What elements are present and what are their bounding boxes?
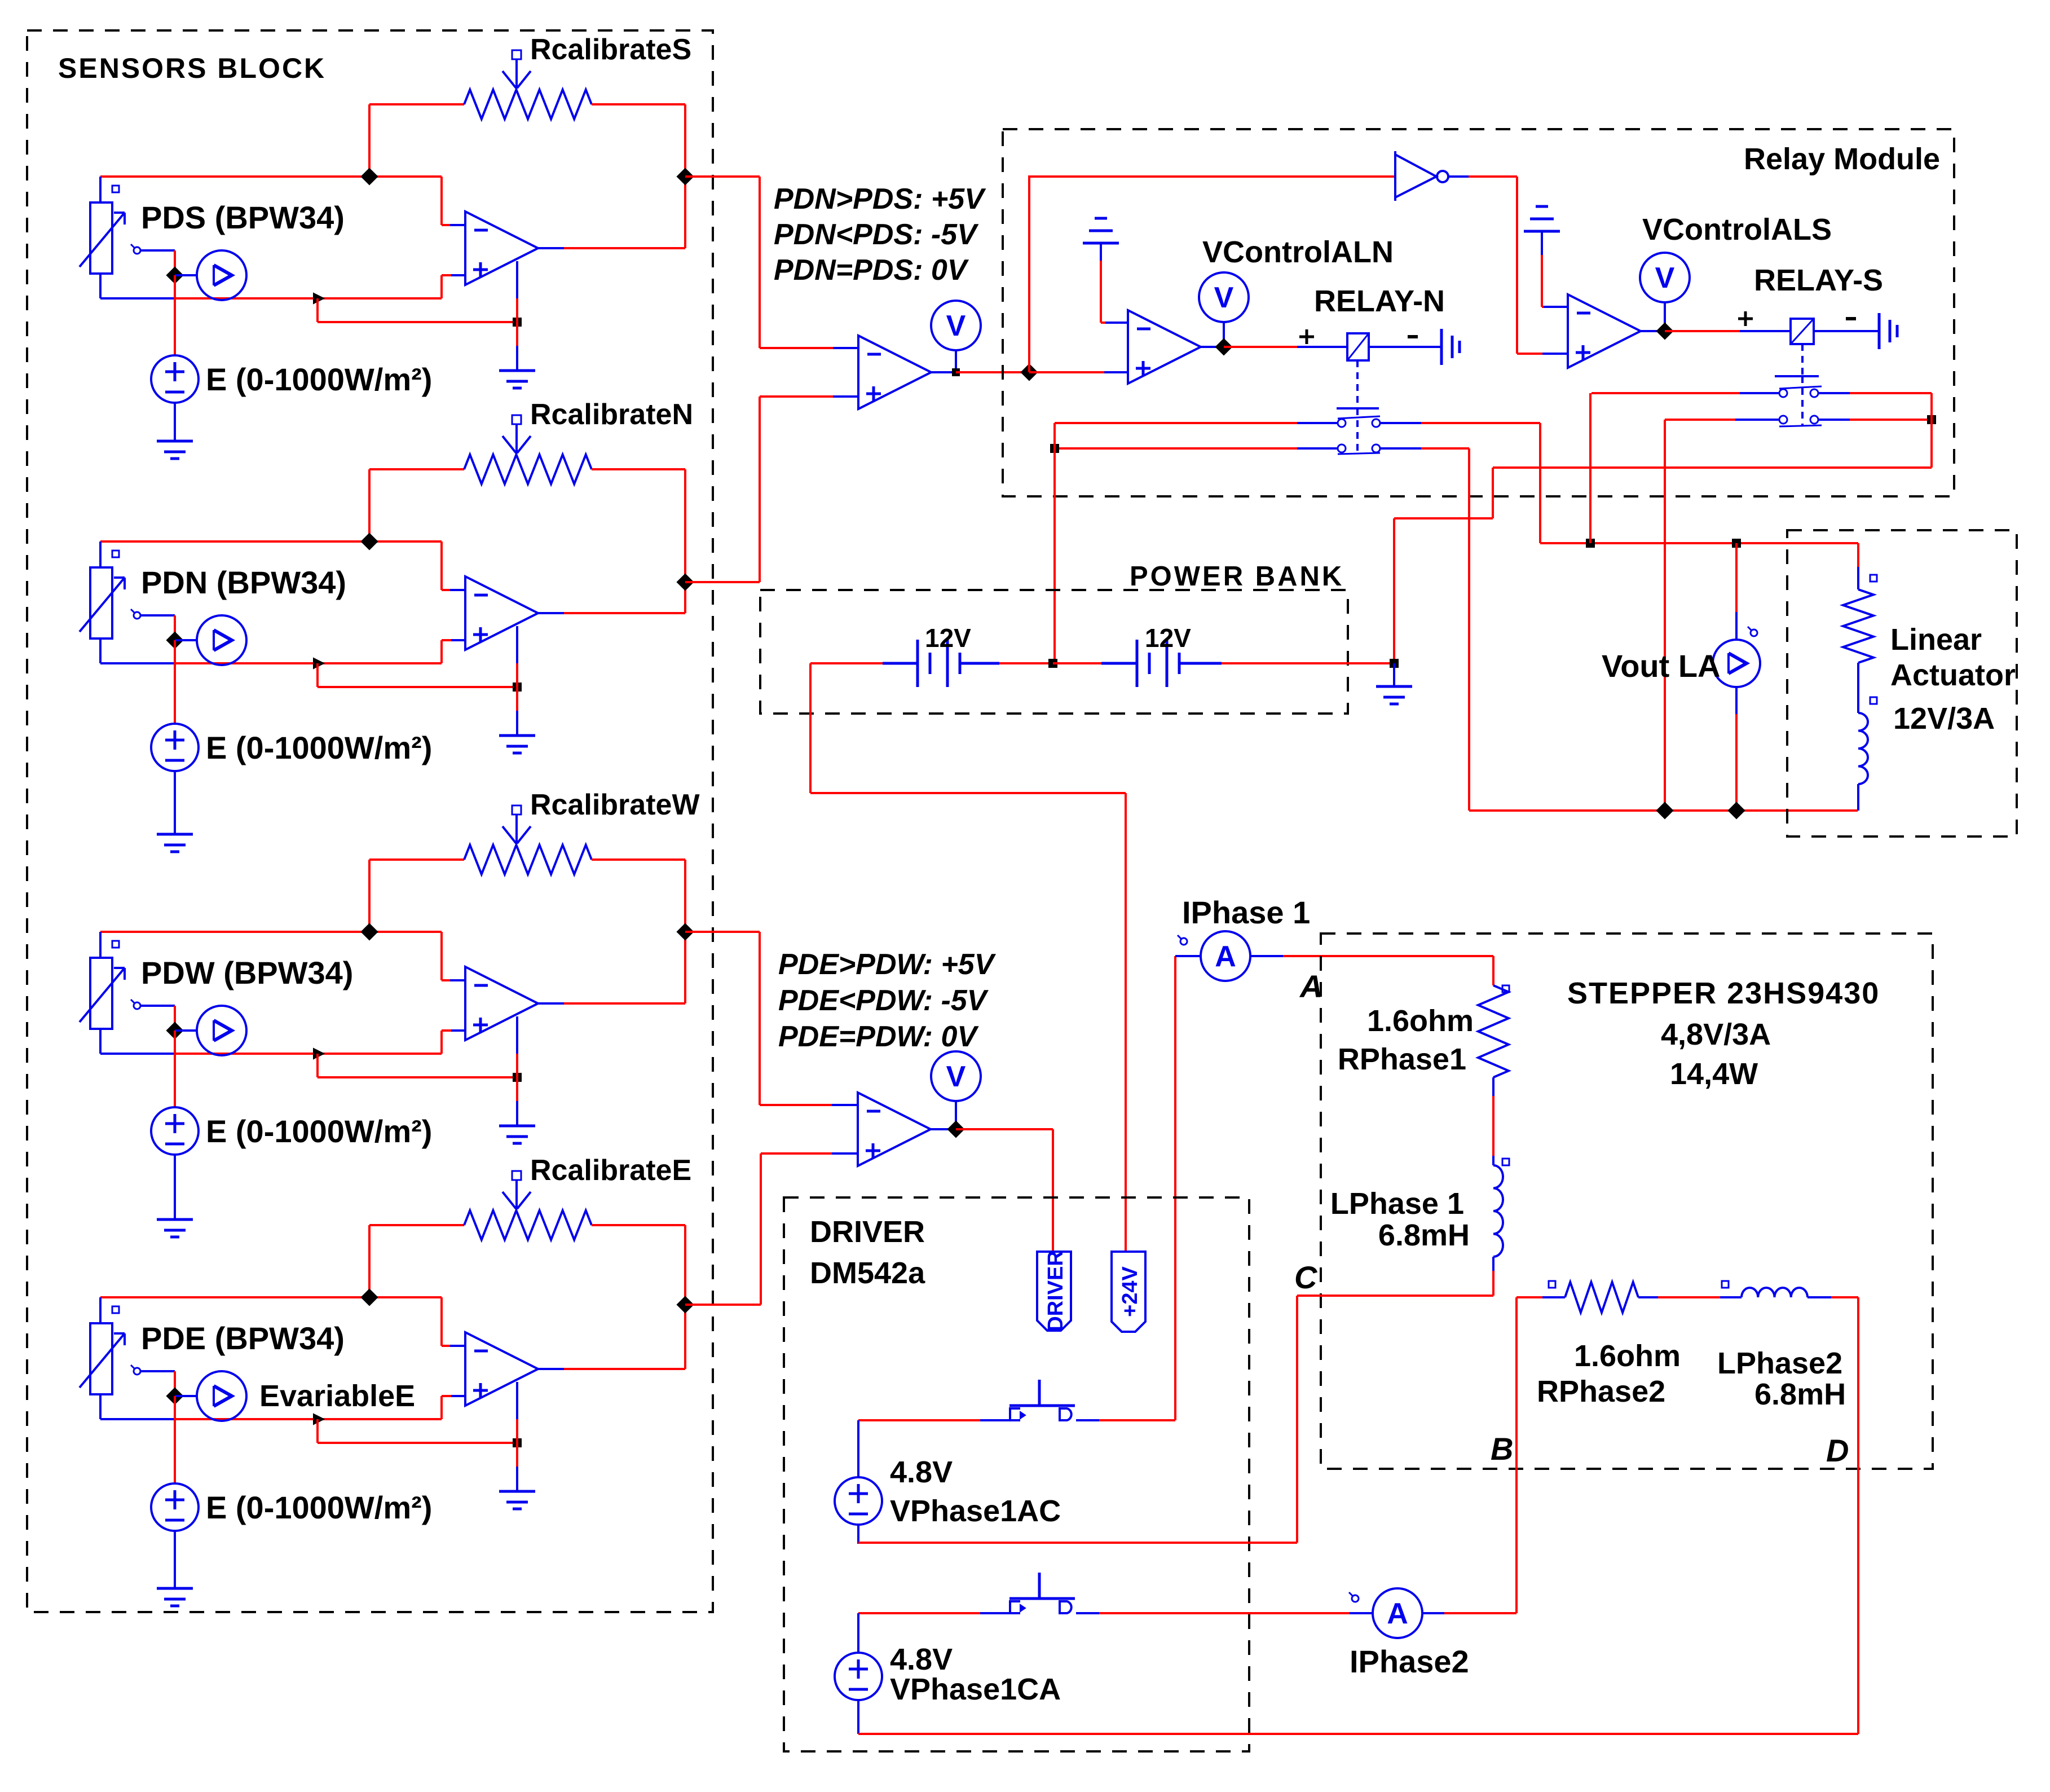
svg-text:V: V	[946, 1060, 966, 1093]
current source PDN photocurrent	[175, 639, 198, 641]
wire PDN output to comparator U5	[685, 581, 760, 583]
wire PDN minus input drop	[440, 541, 443, 590]
ammeter IPhase1	[1175, 955, 1201, 957]
svg-text:Linear: Linear	[1890, 623, 1982, 657]
op-amp PDW amplifier	[465, 967, 538, 1040]
voltmeter probe U6 output	[931, 1051, 981, 1101]
svg-text:SENSORS BLOCK: SENSORS BLOCK	[58, 52, 326, 84]
wire PDW to irradiance source	[174, 1031, 176, 1107]
wire U2 minus to ground	[1104, 322, 1128, 324]
svg-text:12V/3A: 12V/3A	[1893, 702, 1995, 736]
source E PDS irradiance	[151, 355, 199, 403]
svg-text:4.8V: 4.8V	[890, 1455, 953, 1489]
power bank dashed border	[760, 590, 1348, 714]
current source PDE photocurrent	[175, 1395, 198, 1397]
svg-text:12V: 12V	[1145, 623, 1191, 653]
svg-text:PDE>PDW: +5V: PDE>PDW: +5V	[778, 948, 997, 981]
battery BAT1 12V	[810, 662, 883, 664]
wire PDW plus input	[450, 1029, 465, 1032]
svg-text:1.6ohm: 1.6ohm	[1574, 1339, 1681, 1373]
ground PDE E source	[157, 1587, 193, 1590]
relay module dashed border	[1003, 129, 1954, 496]
svg-text:DRIVER: DRIVER	[810, 1215, 925, 1249]
svg-text:E (0-1000W/m²): E (0-1000W/m²)	[206, 362, 432, 397]
wire PDS minus input drop	[440, 177, 443, 225]
resistor linear actuator winding R	[1870, 575, 1877, 582]
svg-text:PDN=PDS: 0V: PDN=PDS: 0V	[774, 254, 969, 287]
svg-text:IPhase2: IPhase2	[1350, 1644, 1469, 1679]
potentiometer RcalibrateE	[464, 1210, 592, 1240]
node PDS current source junction	[166, 266, 183, 284]
svg-text:STEPPER 23HS9430: STEPPER 23HS9430	[1567, 976, 1880, 1010]
svg-text:Vout LA: Vout LA	[1602, 648, 1720, 684]
svg-text:PDE=PDW: 0V: PDE=PDW: 0V	[778, 1020, 979, 1053]
wire PDS pot-right to output	[592, 103, 685, 105]
node U5 output junction	[952, 368, 960, 376]
wire PDN output vertical	[684, 469, 686, 613]
wire RELAY-S coil return	[1814, 330, 1879, 332]
wire PDE inverting input net	[100, 1296, 442, 1298]
svg-text:4.8V: 4.8V	[890, 1643, 953, 1676]
svg-text:E (0-1000W/m²): E (0-1000W/m²)	[206, 1113, 432, 1149]
wire PDW E to ground	[174, 1155, 176, 1219]
switch RELAY-S pole 1	[1591, 392, 1741, 394]
wire RELAY-S pole2 drop	[1664, 420, 1666, 811]
inductor linear actuator winding L	[1870, 697, 1877, 704]
wire VPhase1CA to node D	[857, 1701, 859, 1734]
switch RELAY-N pole 2	[1055, 447, 1298, 450]
svg-text:RcalibrateE: RcalibrateE	[530, 1154, 691, 1187]
source E PDN irradiance	[151, 724, 199, 771]
switch RELAY-S pole 2	[1665, 419, 1736, 421]
svg-text:RcalibrateW: RcalibrateW	[530, 789, 700, 821]
svg-text:LPhase2: LPhase2	[1717, 1346, 1842, 1380]
photodiode PDS (BPW34)	[90, 202, 112, 274]
wire PDW op-amp ground leg	[516, 1016, 518, 1054]
node U4 output junction	[1656, 322, 1673, 340]
terminal PDS photocurrent tap	[134, 247, 140, 254]
photodiode PDN (BPW34)	[90, 567, 112, 639]
node PDS output junction	[676, 168, 694, 185]
op-amp U2 VControlALN driver	[1128, 310, 1201, 384]
wire relay poles to battery mid	[1053, 423, 1056, 663]
svg-text:4,8V/3A: 4,8V/3A	[1661, 1018, 1771, 1051]
wire supply bus to actuator switches	[1493, 466, 1932, 469]
wire PDE op-amp ground leg	[516, 1382, 518, 1419]
svg-text:VControlALS: VControlALS	[1642, 213, 1832, 246]
node PDE output junction	[676, 1296, 694, 1313]
node PDS ground branch junction	[513, 318, 522, 327]
op-amp U6 comparator E-W	[858, 1093, 931, 1166]
node actuator bottom junction 1	[1656, 802, 1673, 819]
relay RELAY-N actuation link	[1356, 360, 1359, 408]
relay coil RELAY-N	[1347, 333, 1369, 360]
wire PDN op-amp ground leg	[516, 626, 518, 663]
node battery midpoint junction	[1048, 659, 1057, 668]
ground PDS E source	[157, 440, 193, 443]
wire PDW pot-left feedback	[369, 858, 464, 861]
wire PDE ground branch	[316, 1419, 319, 1443]
svg-text:D: D	[1826, 1433, 1849, 1468]
node PDW ground branch junction	[513, 1073, 522, 1082]
svg-text:PDW (BPW34): PDW (BPW34)	[141, 955, 353, 990]
voltmeter probe VControlALS	[1640, 253, 1690, 302]
linear actuator dashed border	[1787, 530, 2017, 836]
wire actuator top bus	[1540, 542, 1858, 544]
wire PDS bottom rail	[100, 297, 175, 300]
ground RELAY-S coil return	[1878, 313, 1881, 349]
wire actuator bottom bus	[1469, 809, 1858, 812]
op-amp PDE amplifier	[465, 1332, 538, 1406]
node battery positive junction	[1390, 659, 1399, 668]
ground PDW op-amp	[499, 1125, 535, 1128]
node actuator top bus junction 2	[1732, 539, 1741, 548]
node PDN ground branch junction	[513, 683, 522, 692]
wire relay-N pole2 to bottom bus	[1468, 448, 1470, 811]
svg-text:C: C	[1294, 1260, 1318, 1295]
wire PDS output to comparator U5	[685, 175, 760, 178]
voltmeter probe U5 output	[931, 301, 981, 350]
wire PDE output vertical	[684, 1225, 686, 1369]
svg-text:V: V	[1655, 262, 1675, 294]
resistor RPhase1 1.6ohm	[1492, 956, 1494, 985]
node PDW bottom rail junction	[314, 1049, 324, 1059]
svg-text:RcalibrateS: RcalibrateS	[530, 33, 691, 66]
svg-text:E (0-1000W/m²): E (0-1000W/m²)	[206, 730, 432, 765]
wire PDE bottom rail	[100, 1418, 175, 1420]
ground PDN E source	[157, 833, 193, 836]
svg-text:PDN<PDS: -5V: PDN<PDS: -5V	[774, 218, 979, 251]
node PDW output junction	[676, 923, 694, 940]
wire node B riser	[1515, 1297, 1518, 1613]
wire switch1 to IPhase1	[1174, 956, 1176, 1420]
svg-text:Relay Module: Relay Module	[1744, 142, 1940, 176]
svg-text:RELAY-S: RELAY-S	[1754, 263, 1883, 297]
wire PDW op-amp output	[538, 1002, 564, 1005]
switch RELAY-N pole 1	[1055, 422, 1298, 424]
wire PDE pot-right to output	[592, 1224, 685, 1226]
wire PDS plus input	[450, 274, 465, 276]
wire PDN ground branch	[316, 663, 319, 687]
node U2 output junction	[1215, 338, 1232, 355]
wire U4 minus to ground	[1542, 306, 1568, 308]
wire PDE plus input	[450, 1395, 465, 1397]
wire RPhase1 to LPhase1	[1492, 1077, 1494, 1096]
wire actuator feed	[1857, 543, 1859, 568]
wire U6 output to DRIVER tag	[1052, 1129, 1054, 1252]
wire LPhase1 to node C	[1492, 1257, 1494, 1272]
svg-text:Actuator: Actuator	[1890, 658, 2016, 692]
svg-text:PDE (BPW34): PDE (BPW34)	[141, 1320, 345, 1356]
svg-text:A: A	[1215, 940, 1236, 973]
wire RPhase2 to LPhase2	[1658, 1296, 1721, 1298]
node PDE bottom rail junction	[314, 1414, 324, 1424]
svg-text:PDN>PDS: +5V: PDN>PDS: +5V	[774, 183, 986, 215]
wire LPhase2 to node D	[1831, 1296, 1858, 1298]
svg-text:DRIVER: DRIVER	[1044, 1251, 1068, 1332]
svg-text:LPhase 1: LPhase 1	[1330, 1187, 1464, 1221]
node PDE feedback junction	[360, 1288, 378, 1306]
wire PDE output to comparator U6	[685, 1304, 761, 1306]
wire VPhase1AC to node C	[857, 1525, 859, 1544]
resistor RPhase2 1.6ohm	[1516, 1296, 1544, 1298]
op-amp PDN amplifier	[465, 576, 538, 650]
terminal PDN photocurrent tap	[134, 612, 140, 619]
wire PDE op-amp output	[538, 1368, 564, 1370]
node PDS bottom rail junction	[314, 293, 324, 303]
ground PDN op-amp	[499, 734, 535, 737]
svg-text:PDE<PDW: -5V: PDE<PDW: -5V	[778, 984, 989, 1017]
wire PDS op-amp output	[538, 247, 564, 249]
ground U2 minus reference	[1083, 242, 1119, 245]
current source PDS photocurrent	[175, 274, 198, 276]
polarity + RELAY-N	[1299, 336, 1314, 338]
ground U4 minus reference	[1524, 230, 1560, 233]
battery BAT2 12V	[1053, 662, 1101, 664]
source VPhase1CA 4.8V	[857, 1613, 859, 1652]
node PDS feedback junction	[360, 168, 378, 185]
svg-text:VPhase1AC: VPhase1AC	[890, 1494, 1061, 1528]
photodiode PDW (BPW34)	[90, 958, 112, 1029]
ground PDE op-amp	[499, 1490, 535, 1493]
ground PDW E source	[157, 1218, 193, 1221]
svg-text:A: A	[1299, 968, 1322, 1004]
svg-text:V: V	[946, 310, 966, 342]
polarity + RELAY-S	[1738, 318, 1753, 320]
source E PDE irradiance	[151, 1483, 199, 1531]
wire U4 output to relay coil	[1641, 330, 1665, 332]
source VPhase1AC 4.8V	[857, 1420, 859, 1477]
svg-text:RcalibrateN: RcalibrateN	[530, 398, 693, 431]
svg-text:B: B	[1491, 1431, 1513, 1467]
wire PDN pot-right to output	[592, 468, 685, 470]
potentiometer RcalibrateS	[464, 90, 592, 119]
op-amp PDS amplifier	[465, 212, 538, 285]
svg-text:IPhase 1: IPhase 1	[1182, 895, 1310, 930]
wire RELAY-N coil return	[1369, 346, 1441, 348]
wire U6 output	[931, 1128, 956, 1130]
wire PDE pot-left feedback	[369, 1224, 464, 1226]
svg-text:+24V: +24V	[1118, 1266, 1142, 1317]
node U5 to relay branch	[1020, 363, 1038, 381]
wire PDN bottom rail	[100, 662, 175, 664]
relay coil RELAY-S	[1791, 319, 1814, 344]
wire PDN inverting input net	[100, 540, 442, 543]
wire PDS to irradiance source	[174, 275, 176, 355]
wire PDN plus input	[450, 639, 465, 641]
node RELAY-S pole junction	[1927, 415, 1936, 424]
wire PDS E to ground	[174, 403, 176, 441]
wire PDS op-amp ground leg	[516, 261, 518, 298]
node PDN current source junction	[166, 631, 183, 649]
wire U5 output	[931, 371, 956, 373]
wire PDN E to ground	[174, 771, 176, 834]
ground power bank	[1393, 663, 1395, 686]
node PDN bottom rail junction	[314, 658, 324, 668]
svg-text:PDS (BPW34): PDS (BPW34)	[141, 200, 345, 235]
wire inverter output	[1448, 175, 1469, 178]
svg-text:VControlALN: VControlALN	[1202, 235, 1394, 269]
svg-text:6.8mH: 6.8mH	[1378, 1218, 1470, 1252]
wire PDS pot-left feedback	[369, 103, 464, 105]
wire U5 to inverter	[1028, 177, 1030, 372]
wire PDS inverting input net	[100, 175, 442, 178]
potentiometer RcalibrateN	[464, 455, 592, 484]
svg-text:12V: 12V	[925, 623, 971, 653]
svg-text:RELAY-N: RELAY-N	[1314, 284, 1445, 318]
node actuator bottom junction 2	[1727, 802, 1745, 819]
wire RELAY-S pole1 drop	[1589, 393, 1591, 543]
photodiode PDE (BPW34)	[90, 1323, 112, 1394]
source E PDW irradiance	[151, 1107, 199, 1155]
wire battery positive riser	[1393, 518, 1395, 663]
node relay pole2 to battery junction	[1050, 444, 1059, 453]
svg-text:6.8mH: 6.8mH	[1754, 1377, 1846, 1411]
node actuator top bus junction 1	[1586, 539, 1595, 548]
svg-text:PDN (BPW34): PDN (BPW34)	[141, 565, 346, 600]
switch SW1 phase1 AC	[858, 1419, 981, 1421]
inductor LPhase1 6.8mH	[1502, 1159, 1509, 1165]
switch SW2 phase1 CA	[858, 1612, 981, 1614]
node U6 output junction	[947, 1120, 964, 1138]
wire relay-N pole1 to actuator top bus	[1539, 423, 1541, 543]
wire IPhase1 to stepper node A	[1283, 955, 1493, 957]
potentiometer RcalibrateW	[464, 845, 592, 874]
svg-text:V: V	[1214, 281, 1234, 314]
ammeter IPhase2	[1352, 1595, 1359, 1602]
wire PDN op-amp output	[538, 612, 564, 614]
terminal tag DRIVER	[1037, 1252, 1071, 1331]
voltmeter probe VoutLA	[1735, 543, 1738, 612]
svg-text:VPhase1CA: VPhase1CA	[890, 1672, 1061, 1706]
wire U2 output to relay coil	[1201, 346, 1224, 348]
inverter U3 logic NOT	[1394, 151, 1396, 201]
terminal PDE photocurrent tap	[134, 1368, 140, 1375]
node PDW current source junction	[166, 1022, 183, 1039]
node PDE ground branch junction	[513, 1438, 522, 1447]
wire PDW pot-right to output	[592, 858, 685, 861]
wire PDN to irradiance source	[174, 640, 176, 724]
wire U5 to VControlALN comparator plus	[1029, 371, 1105, 373]
ground PDS op-amp	[499, 369, 535, 372]
sensors block dashed border	[27, 30, 713, 1612]
svg-text:A: A	[1387, 1597, 1408, 1630]
svg-text:RPhase2: RPhase2	[1537, 1375, 1665, 1408]
relay RELAY-S actuation link	[1801, 344, 1804, 376]
wire PDE E to ground	[174, 1531, 176, 1588]
svg-text:E (0-1000W/m²): E (0-1000W/m²)	[206, 1490, 432, 1525]
svg-text:1.6ohm: 1.6ohm	[1367, 1004, 1474, 1038]
wire PDW output vertical	[684, 860, 686, 1003]
wire PDE to irradiance source	[174, 1396, 176, 1483]
op-amp U5 comparator N-S	[858, 336, 931, 409]
wire PDS ground branch	[316, 298, 319, 322]
svg-text:14,4W: 14,4W	[1670, 1057, 1758, 1091]
polarity - RELAY-S	[1846, 317, 1856, 320]
wire PDE minus input drop	[440, 1297, 443, 1346]
node PDE current source junction	[166, 1387, 183, 1404]
svg-text:DM542a: DM542a	[810, 1256, 925, 1290]
node PDN feedback junction	[360, 532, 378, 550]
terminal tag +24V	[1112, 1252, 1145, 1332]
wire PDW minus input drop	[440, 932, 443, 980]
wire PDW output to comparator U6	[685, 931, 760, 933]
voltmeter probe VControlALN	[1199, 272, 1249, 322]
wire PDW ground branch	[316, 1054, 319, 1077]
wire battery1 to +24V feed	[809, 663, 812, 793]
node PDN output junction	[676, 573, 694, 591]
terminal PDW photocurrent tap	[134, 1002, 140, 1009]
svg-text:POWER BANK: POWER BANK	[1130, 561, 1344, 592]
polarity - RELAY-N	[1408, 335, 1418, 338]
node PDW feedback junction	[360, 923, 378, 940]
wire PDS output vertical	[684, 104, 686, 248]
svg-text:EvariableE: EvariableE	[259, 1379, 415, 1413]
current source PDW photocurrent	[175, 1029, 198, 1032]
wire PDW inverting input net	[100, 931, 442, 933]
stepper dashed border	[1321, 934, 1933, 1469]
wire PDW bottom rail	[100, 1053, 175, 1055]
driver dashed border	[784, 1197, 1249, 1751]
wire PDN pot-left feedback	[369, 468, 464, 470]
inductor LPhase2 6.8mH	[1722, 1281, 1729, 1288]
svg-text:RPhase1: RPhase1	[1338, 1042, 1466, 1076]
ground RELAY-N coil return	[1440, 329, 1443, 365]
op-amp U4 VControlALS driver	[1568, 294, 1641, 368]
wire RELAY-S poles common	[1930, 393, 1933, 468]
